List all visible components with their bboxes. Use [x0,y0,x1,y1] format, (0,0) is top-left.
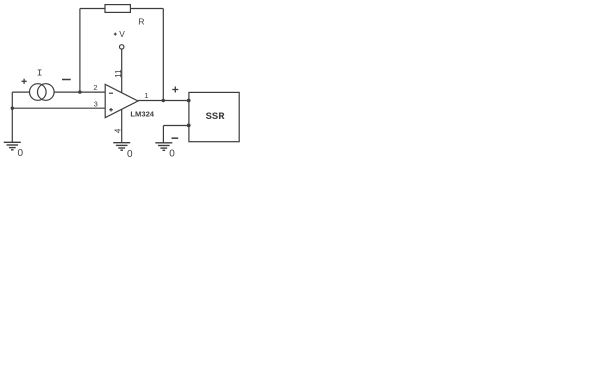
ground 0 right [155,143,172,151]
svg-text:SSR: SSR [206,111,226,123]
wire feedback right vertical [162,9,164,101]
wire pin2 right segment [54,91,105,93]
wire left vertical to ground [11,92,13,142]
svg-text:1: 1 [144,91,148,100]
ground 0 middle [113,143,130,151]
plus sign at SSR input [172,87,178,93]
current source I [30,84,55,101]
node junction left vertical and pin3 [11,107,14,110]
svg-text:11: 11 [114,69,123,78]
resistor R [105,5,130,13]
op-amp minus input mark [109,92,113,94]
svg-text:3: 3 [94,100,98,109]
svg-text:LM324: LM324 [130,110,154,119]
wire SSR lower vertical to ground [162,126,164,143]
svg-text:0: 0 [127,149,133,160]
SSR box [189,92,239,141]
svg-text:0: 0 [18,148,24,159]
plus sign small at +V [114,33,117,36]
node junction output and feedback [162,99,165,102]
wire SSR lower horizontal [163,125,189,127]
svg-text:0: 0 [169,149,175,160]
svg-text:V: V [119,29,125,39]
pin 4 supply wire [121,109,123,142]
node dot SSR plus terminal [187,99,191,103]
wire output pin1 [138,100,189,102]
wire pin3 horizontal [12,107,105,109]
pin 11 supply wire [121,49,123,93]
minus sign at SSR input [172,137,179,139]
op-amp plus input mark [109,108,113,112]
node dot SSR minus terminal [187,124,191,128]
wire feedback left vertical [79,9,81,93]
wire top feedback left segment [80,8,105,10]
svg-text:2: 2 [93,83,97,92]
node junction at feedback and pin2 [78,90,81,93]
svg-text:R: R [138,17,144,27]
svg-text:I: I [37,67,43,78]
wire pin2 left segment [12,91,29,93]
plus sign at source [22,79,27,84]
svg-text:4: 4 [114,128,123,133]
ground 0 left [4,142,21,150]
wire top feedback right segment [130,8,163,10]
+V terminal circle [120,45,124,49]
op-amp U1 triangle [105,84,138,117]
minus sign at source [62,79,71,81]
